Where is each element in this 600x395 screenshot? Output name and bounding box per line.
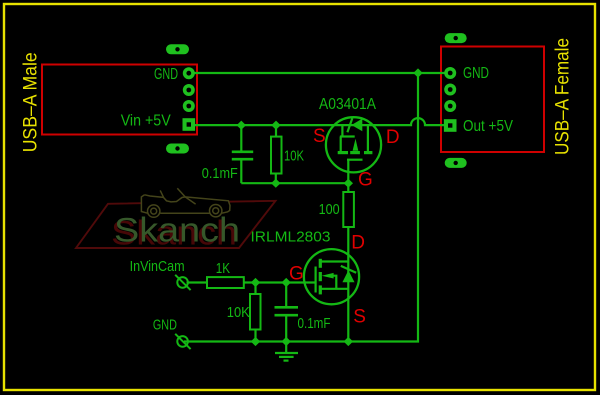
- svg-text:InVinCam: InVinCam: [130, 258, 185, 275]
- svg-text:Skanch: Skanch: [114, 212, 240, 250]
- svg-text:G: G: [289, 263, 304, 284]
- svg-text:USB–A Male: USB–A Male: [21, 52, 42, 152]
- svg-text:IRLML2803: IRLML2803: [251, 228, 331, 245]
- svg-text:1K: 1K: [216, 260, 230, 277]
- svg-text:G: G: [358, 170, 373, 191]
- svg-text:S: S: [353, 307, 366, 328]
- svg-text:GND: GND: [154, 66, 178, 83]
- svg-text:Vin +5V: Vin +5V: [121, 113, 171, 130]
- svg-text:A03401A: A03401A: [319, 96, 376, 113]
- svg-text:USB–A Female: USB–A Female: [553, 38, 574, 155]
- svg-text:0.1mF: 0.1mF: [202, 165, 238, 182]
- svg-text:S: S: [313, 126, 326, 147]
- svg-text:Out +5V: Out +5V: [463, 118, 513, 135]
- svg-text:100: 100: [319, 201, 340, 218]
- svg-text:GND: GND: [153, 317, 177, 334]
- svg-text:10K: 10K: [284, 147, 304, 164]
- svg-text:10K: 10K: [227, 304, 250, 321]
- svg-text:0.1mF: 0.1mF: [298, 315, 331, 332]
- svg-text:GND: GND: [463, 65, 489, 82]
- svg-text:D: D: [351, 233, 365, 254]
- svg-text:D: D: [386, 127, 400, 148]
